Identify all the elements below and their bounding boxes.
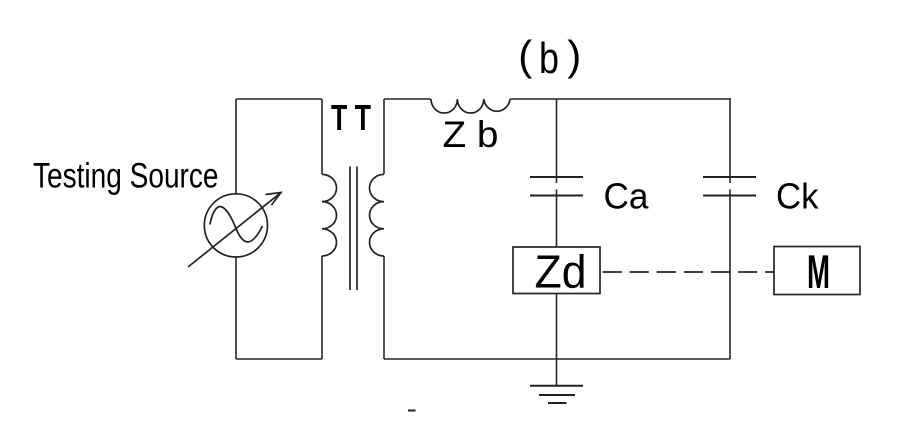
svg-text:Ck: Ck xyxy=(776,176,819,217)
wire primary loop bottom xyxy=(236,358,322,360)
svg-text:T T: T T xyxy=(331,97,371,138)
dashed link Zd to M xyxy=(603,271,775,273)
svg-text:Zd: Zd xyxy=(535,246,587,298)
capacitor Ck top plate xyxy=(703,176,756,178)
impedance box Zd xyxy=(513,247,600,294)
wire secondary winding lower lead xyxy=(383,256,385,359)
AC source arrowhead xyxy=(266,193,282,206)
ground bar 1 xyxy=(530,385,583,387)
wire primary winding upper lead xyxy=(321,99,323,174)
AC source G1 circle xyxy=(204,194,267,257)
stray dash mark xyxy=(408,410,416,412)
wire Ca upper lead xyxy=(556,99,558,183)
wire bottom bus xyxy=(384,358,730,360)
svg-text:M: M xyxy=(807,246,830,299)
meter box M xyxy=(774,247,860,295)
svg-text:Z b: Z b xyxy=(443,114,499,155)
AC source sine wave xyxy=(210,206,263,241)
svg-text:Ca: Ca xyxy=(604,176,650,217)
wire Ck upper lead xyxy=(729,99,731,183)
svg-text:Testing Source: Testing Source xyxy=(33,157,219,196)
wire primary loop top xyxy=(236,98,322,100)
svg-text:b: b xyxy=(539,34,559,83)
transformer T primary winding xyxy=(322,174,337,256)
wire Ck lower lead xyxy=(729,190,731,360)
wire primary loop left upper xyxy=(235,99,237,194)
wire primary loop left lower xyxy=(235,257,237,359)
wire top bus xyxy=(510,98,731,100)
transformer core line 2 xyxy=(356,167,358,291)
ground bar 2 xyxy=(539,394,575,396)
svg-text:): ) xyxy=(567,32,581,79)
inductor Zb xyxy=(431,99,510,113)
capacitor Ca top plate xyxy=(530,176,583,178)
transformer T secondary winding xyxy=(370,174,385,256)
wire Ca lower lead xyxy=(556,190,558,248)
wire secondary top left segment xyxy=(384,98,431,100)
wire primary winding lower lead xyxy=(321,256,323,359)
svg-text:(: ( xyxy=(518,32,532,79)
ground bar 3 xyxy=(548,402,567,404)
wire Zd lower lead and ground stem xyxy=(556,294,558,386)
capacitor Ck bottom plate xyxy=(703,195,756,197)
transformer core line 1 xyxy=(349,167,351,291)
wire secondary winding upper lead xyxy=(383,99,385,174)
AC source variability arrow xyxy=(188,193,281,268)
capacitor Ca bottom plate xyxy=(530,195,583,197)
